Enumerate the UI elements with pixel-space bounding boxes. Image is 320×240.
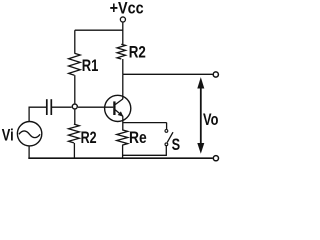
svg-text:Re: Re <box>129 129 147 147</box>
svg-text:Vi: Vi <box>2 126 14 144</box>
svg-text:R2: R2 <box>81 129 97 147</box>
svg-text:R1: R1 <box>82 57 99 75</box>
svg-text:Vo: Vo <box>203 111 218 129</box>
svg-text:R2: R2 <box>129 43 146 61</box>
svg-text:S: S <box>172 136 181 154</box>
svg-text:+Vcc: +Vcc <box>110 0 144 18</box>
